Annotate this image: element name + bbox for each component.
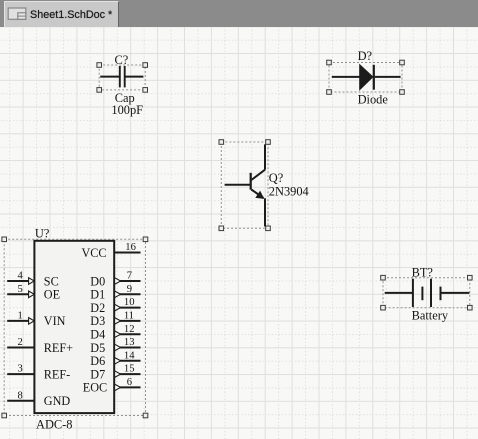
svg-text:5: 5 [18,284,23,295]
pin 10 D2 wire [114,307,140,309]
svg-text:D7: D7 [90,367,105,381]
svg-text:SC: SC [44,274,59,288]
svg-text:D0: D0 [90,274,105,288]
svg-text:VCC: VCC [82,246,107,260]
selection box transistor [219,140,270,231]
selection box diode [327,60,405,94]
selection box U? [2,237,148,418]
pin 6 output arrow [115,384,121,391]
svg-text:D3: D3 [90,314,105,328]
pin 7 D0 wire [114,280,140,282]
battery BT? long plate 2 [430,279,432,307]
pin 3 REF- wire [7,373,34,375]
svg-text:2N3904: 2N3904 [269,185,309,199]
transistor Q? base wire [225,184,251,186]
svg-text:8: 8 [18,390,23,401]
IC body U? [34,241,114,413]
pin 12 output arrow [115,331,121,338]
tab bar [0,0,478,27]
selection box capacitor [97,63,148,92]
svg-text:ADC-8: ADC-8 [36,418,72,432]
pin 11 D3 wire [114,320,140,322]
pin 12 D4 wire [114,333,140,335]
svg-text:11: 11 [124,311,134,322]
svg-text:GND: GND [44,394,71,408]
pin 9 output arrow [115,291,121,298]
pin 10 output arrow [115,304,121,311]
svg-text:OE: OE [44,288,60,302]
svg-text:D2: D2 [90,301,105,315]
svg-text:VIN: VIN [44,314,66,328]
pin 5 input arrow [29,291,35,298]
svg-text:BT?: BT? [412,265,433,279]
transistor Q? emitter wire [264,198,266,226]
active tab Sheet1.SchDoc [4,1,119,27]
transistor Q? emitter arrow [255,191,264,199]
pin 13 D5 wire [114,347,140,349]
svg-text:C?: C? [115,53,129,67]
svg-text:Q?: Q? [269,171,283,185]
transistor Q? emitter diagonal [251,190,263,199]
pin 14 D6 wire [114,360,140,362]
pin 1 input arrow [29,318,35,325]
battery BT? long plate 1 [412,279,414,307]
tab document icon [8,8,26,19]
svg-text:EOC: EOC [83,381,107,395]
battery BT? short plate 1 [421,287,423,301]
pin 16 VCC wire [114,252,140,254]
svg-text:REF+: REF+ [44,341,73,355]
pin 15 D7 wire [114,373,140,375]
pin 1 VIN wire [7,320,28,322]
pin 8 GND wire [7,400,34,402]
svg-text:14: 14 [124,350,135,361]
selection box battery [381,275,472,310]
svg-text:6: 6 [127,377,132,388]
pin 4 SC wire [7,280,28,282]
pin 9 D1 wire [114,293,140,295]
diode D? anode lead wire [332,76,360,78]
svg-text:1: 1 [18,311,23,322]
svg-text:D1: D1 [90,288,105,302]
svg-text:D6: D6 [90,354,105,368]
pin 11 output arrow [115,318,121,325]
svg-text:12: 12 [124,324,135,335]
transistor Q? base bar [250,173,252,190]
pin 14 output arrow [115,358,121,365]
svg-text:9: 9 [127,284,132,295]
svg-text:13: 13 [124,337,135,348]
svg-text:100pF: 100pF [111,103,143,117]
svg-text:D4: D4 [90,328,105,342]
pin 13 output arrow [115,344,121,351]
capacitor C? right plate [124,66,126,87]
svg-text:D5: D5 [90,341,105,355]
diode D? cathode lead wire [375,76,401,78]
capacitor C? left lead wire [100,76,119,78]
pin 2 REF+ wire [7,347,34,349]
battery BT? left lead wire [385,292,413,294]
capacitor C? right lead wire [125,76,143,78]
svg-text:2: 2 [18,337,23,348]
capacitor C? left plate [119,66,121,87]
svg-text:3: 3 [18,364,23,375]
transistor Q? collector diagonal [251,170,265,180]
svg-text:15: 15 [124,364,135,375]
pin 6 EOC wire [114,386,140,388]
diode D? triangle [360,65,373,90]
pin 7 output arrow [115,278,121,285]
pin 5 OE wire [7,293,28,295]
battery BT? right lead wire [441,292,470,294]
svg-text:4: 4 [18,271,24,282]
diode D? cathode bar [373,65,375,90]
svg-text:16: 16 [125,242,136,253]
pin 15 output arrow [115,371,121,378]
svg-text:7: 7 [127,271,132,282]
battery BT? short plate 2 [440,287,442,301]
svg-text:Diode: Diode [358,93,389,107]
pin 4 input arrow [29,278,35,285]
svg-text:REF-: REF- [44,367,70,381]
transistor Q? collector wire [264,144,266,169]
svg-text:U?: U? [35,226,49,240]
svg-text:D?: D? [358,49,372,63]
svg-text:10: 10 [124,297,135,308]
svg-text:Battery: Battery [412,309,449,323]
